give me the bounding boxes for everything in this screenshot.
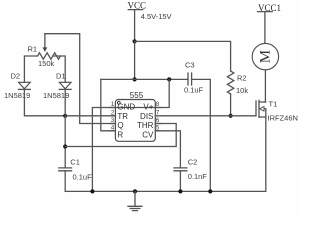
svg-text:555: 555 [130,91,144,100]
svg-text:1N5819: 1N5819 [4,91,30,100]
svg-text:0.1uF: 0.1uF [184,86,204,95]
capacitor C2 [174,157,207,181]
node junction dot (C2 bottom) [178,189,182,193]
svg-text:0.1uF: 0.1uF [73,173,93,182]
wire C1 bottom to rail [64,171,66,192]
capacitor C3 [184,61,204,95]
node junction dot (R2/gate) [229,114,233,118]
svg-text:C2: C2 [188,157,198,166]
capacitor C1 [59,157,92,181]
resistor R2 [227,71,248,116]
wire motor to T1 drain [264,70,266,102]
transistor T1 [256,99,298,122]
svg-text:IRFZ46N: IRFZ46N [268,113,298,122]
svg-text:TR: TR [117,112,128,121]
svg-text:R1: R1 [28,45,38,54]
wire D2 cathode to TR node [24,89,65,115]
svg-text:THR: THR [137,121,154,130]
svg-text:CV: CV [142,131,154,140]
pin 5 [155,130,160,132]
node junction dot (C3 drop bottom) [208,189,212,193]
wire ground rail [65,117,266,191]
svg-text:4.5V-15V: 4.5V-15V [141,12,172,21]
wire R1 right lead [54,56,66,82]
node junction dot (ground symbol) [133,189,137,193]
svg-text:D2: D2 [11,72,21,81]
wire GND (pin1 to rail) [92,108,115,192]
op-amp U1 555 timer box [110,91,160,142]
wire wiper to Q (pin3) [45,34,116,124]
pin 3 [110,123,115,125]
wire VCC mid row [101,78,188,80]
wire C2 bottom to rail [179,171,181,192]
svg-text:GND: GND [117,102,135,111]
wire gate (pin7 to T1) [160,115,256,117]
svg-text:DIS: DIS [140,112,153,121]
svg-text:C3: C3 [185,61,195,70]
node junction dot (TR node) [63,114,67,118]
svg-text:R2: R2 [237,74,247,83]
node junction dot (VCC top rail) [133,39,137,43]
svg-text:R: R [117,131,123,140]
resistor R1 (pot with wiper) [28,34,61,68]
node junction dot (pin8 riser) [167,77,171,81]
pin 6 [155,123,160,125]
svg-text:Q: Q [117,121,123,130]
wire VCC top rail to R2 [135,41,231,71]
wire TR node to pin 2 [65,115,115,117]
pin 4 [110,130,115,132]
svg-text:0.1nF: 0.1nF [188,172,208,181]
svg-text:10k: 10k [236,86,248,95]
svg-text:T1: T1 [269,99,278,108]
wire CV (pin5 to C2) [155,131,180,168]
diode D2 [4,72,30,100]
wire riser to pin 8 [115,79,169,107]
node junction dot (GND drop) [90,189,94,193]
wire THR (pin6 around to C1 column) [65,124,176,147]
wire VCC stem down [134,41,136,79]
motor M1 [252,43,278,69]
pin 1 [110,107,115,109]
svg-text:D1: D1 [56,72,66,81]
wire VCC to pin 4 [101,79,116,130]
node junction dot (VCC mid) [133,77,137,81]
wire D1 cathode down through C1 column [64,89,66,167]
svg-text:C1: C1 [70,157,80,166]
diode D1 [43,72,71,100]
wire C3 right drop [192,79,211,191]
svg-text:M: M [257,50,273,63]
svg-text:150k: 150k [38,59,55,68]
power symbol VCC1 [258,3,281,44]
power symbol VCC [128,1,147,42]
pin 7 [155,115,160,117]
node junction dot (THR tap on C1 column) [63,144,67,148]
pin 2 [110,115,115,117]
pin 8 [155,107,160,109]
ground [128,191,142,210]
svg-text:V+: V+ [143,102,153,111]
wire R1 left lead [24,56,37,82]
